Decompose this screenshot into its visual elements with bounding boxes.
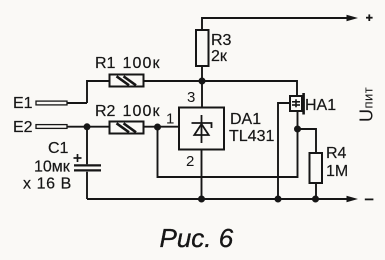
svg-text:3: 3 <box>187 89 195 106</box>
svg-text:DA1: DA1 <box>230 111 261 128</box>
svg-text:R4: R4 <box>326 145 347 162</box>
svg-text:Рис. 6: Рис. 6 <box>160 223 234 253</box>
svg-text:R1: R1 <box>95 55 116 72</box>
svg-text:100к: 100к <box>123 103 161 120</box>
svg-text:2: 2 <box>186 153 194 170</box>
svg-text:Е2: Е2 <box>13 119 33 136</box>
svg-text:НА1: НА1 <box>305 97 336 114</box>
svg-text:2к: 2к <box>211 48 228 65</box>
svg-text:TL431: TL431 <box>229 128 274 145</box>
svg-text:1: 1 <box>166 111 174 128</box>
svg-text:10мк: 10мк <box>34 159 71 176</box>
svg-text:R2: R2 <box>95 103 116 120</box>
svg-text:Е1: Е1 <box>13 95 33 112</box>
svg-text:х 16 В: х 16 В <box>23 176 72 193</box>
svg-text:С1: С1 <box>48 140 69 157</box>
svg-text:R3: R3 <box>211 32 232 49</box>
svg-text:100к: 100к <box>123 55 161 72</box>
svg-text:1М: 1М <box>326 163 348 180</box>
